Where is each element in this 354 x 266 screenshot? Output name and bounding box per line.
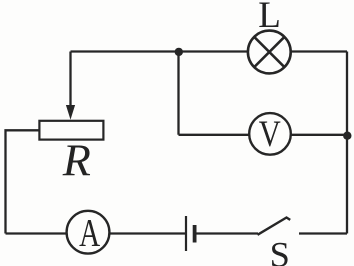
- wire bottom-left run to battery: [6, 232, 187, 234]
- svg-text:R: R: [62, 134, 91, 185]
- svg-text:S: S: [270, 235, 290, 266]
- wire voltmeter branch horizontal: [179, 134, 348, 136]
- svg-text:L: L: [258, 0, 281, 36]
- wire rheostat feed with left corner: [6, 130, 40, 233]
- voltmeter V: [249, 113, 291, 155]
- battery short thick plate: [193, 225, 197, 243]
- svg-text:A: A: [79, 210, 100, 254]
- node junction dot right: [343, 132, 351, 140]
- wire bottom-right from corner to switch contact: [299, 232, 347, 234]
- wire battery to switch pivot: [195, 232, 258, 234]
- node junction dot top: [175, 48, 183, 56]
- lamp L: [248, 31, 291, 74]
- rheostat arrow head: [66, 105, 75, 120]
- wire junction vertical to voltmeter branch: [177, 52, 179, 135]
- wire right vertical: [346, 52, 348, 234]
- wire arrow feed vertical to rheostat: [69, 52, 71, 108]
- switch S blade: [258, 218, 291, 235]
- resistor R (rheostat box): [39, 121, 103, 140]
- wire top run from left corner through lamp to right corner: [71, 50, 348, 52]
- battery long plate: [185, 216, 187, 251]
- svg-text:V: V: [259, 113, 281, 154]
- ammeter A: [67, 210, 110, 254]
